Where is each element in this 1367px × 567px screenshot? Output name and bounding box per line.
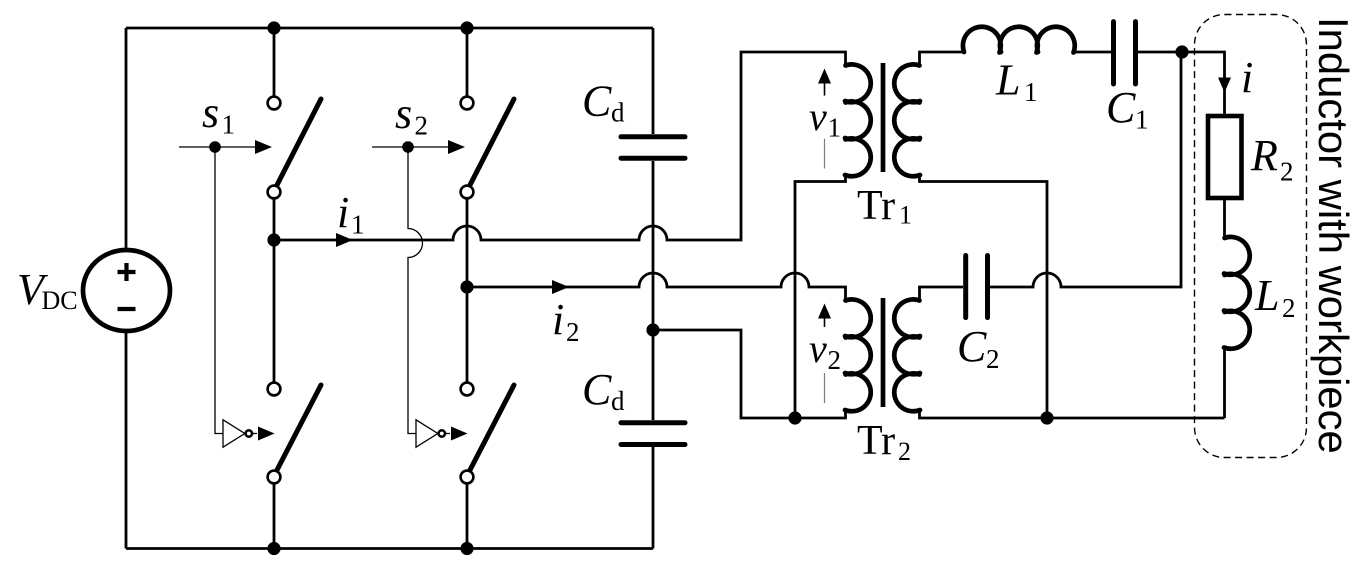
wire Tr1 secondary bottom bbox=[920, 175, 1048, 418]
label Tr1 bbox=[857, 183, 912, 230]
svg-text:1: 1 bbox=[1024, 77, 1038, 107]
node dot output bbox=[1175, 45, 1188, 58]
s2 control vertical line with hop over i1 wire bbox=[408, 147, 423, 434]
svg-text:1: 1 bbox=[828, 113, 842, 143]
wire Tr1 secondary top to L1 bbox=[920, 52, 965, 66]
label i1 bbox=[337, 188, 365, 240]
transformer Tr1 primary coil bbox=[845, 64, 871, 176]
svg-text:d: d bbox=[611, 98, 625, 128]
svg-text:i: i bbox=[337, 188, 349, 237]
v2 arrow bbox=[818, 304, 831, 328]
switch S1b bottom contact bbox=[268, 471, 281, 484]
svg-text:1: 1 bbox=[899, 201, 912, 230]
node dot secondary return bbox=[1040, 411, 1053, 424]
i2 arrowhead bbox=[552, 280, 569, 294]
node dot top rail leg2 bbox=[460, 21, 473, 34]
v1 arrow bbox=[818, 69, 831, 96]
transformer Tr1 secondary coil bbox=[894, 64, 920, 176]
wire L2 down to bottom return bbox=[1223, 348, 1226, 419]
wire C2 to output with hop over secondary return bbox=[990, 52, 1182, 287]
svg-text:C: C bbox=[957, 322, 987, 371]
node dot i2 tap bbox=[460, 280, 473, 293]
resistor R2 bbox=[1208, 116, 1242, 198]
transformer Tr2 core bbox=[881, 298, 886, 407]
label i2 bbox=[552, 295, 580, 347]
svg-text:i: i bbox=[1241, 53, 1253, 102]
inverter gate G2 bubble bbox=[439, 430, 445, 436]
s1 control node dot bbox=[209, 141, 221, 153]
wire leg1 lower bbox=[273, 483, 276, 548]
voltage source VDC bbox=[83, 250, 170, 331]
transformer Tr1 core bbox=[881, 63, 886, 172]
wire Tr2 secondary top to C2 bbox=[920, 287, 964, 301]
label C1 bbox=[1106, 83, 1149, 135]
switch S1 bottom contact bbox=[268, 186, 281, 199]
label Tr2 bbox=[857, 418, 911, 466]
switch S2b blade bbox=[470, 385, 514, 470]
wire bottom return to Tr2 secondary bbox=[920, 410, 1225, 418]
capacitor C1 bbox=[1114, 22, 1136, 84]
switch S2 top contact bbox=[461, 97, 474, 110]
inverter gate G2 output line bbox=[445, 433, 450, 435]
switch S1b blade bbox=[277, 385, 321, 470]
inverter gate G1 output line bbox=[252, 433, 257, 435]
switch S1b top contact bbox=[268, 383, 281, 396]
svg-text:C: C bbox=[1106, 83, 1136, 132]
svg-text:L: L bbox=[995, 56, 1020, 105]
inductor L1 bbox=[963, 27, 1075, 53]
label L2 bbox=[1254, 271, 1296, 323]
node dot bottom rail leg2 bbox=[460, 542, 473, 555]
wire i2 with hops over Cd rail and primary return bbox=[467, 273, 846, 301]
wire leg2 lower bbox=[466, 483, 469, 548]
svg-text:2: 2 bbox=[1280, 157, 1294, 187]
label Cd top bbox=[582, 77, 625, 128]
transformer Tr2 secondary coil bbox=[894, 299, 920, 411]
capacitor Cd bottom bbox=[621, 423, 685, 445]
v2 reference line bbox=[824, 373, 826, 403]
wire i1 with hops over leg2 and Cd rail bbox=[274, 52, 846, 240]
svg-text:2: 2 bbox=[898, 437, 911, 466]
node dot Cd midpoint bbox=[646, 323, 659, 336]
label L1 bbox=[995, 56, 1038, 108]
switch S2 blade bbox=[470, 99, 514, 185]
wire leg1 upper bbox=[273, 28, 276, 97]
svg-text:v: v bbox=[809, 326, 827, 371]
dashed load box bbox=[1195, 15, 1307, 458]
label R2 bbox=[1250, 131, 1294, 187]
wire leg2 upper bbox=[466, 28, 469, 97]
i1 arrowhead bbox=[336, 233, 353, 247]
node dot bottom rail leg1 bbox=[267, 542, 280, 555]
svg-text:i: i bbox=[552, 295, 564, 344]
label VDC bbox=[17, 265, 78, 315]
svg-text:2: 2 bbox=[986, 344, 1000, 374]
svg-text:2: 2 bbox=[415, 111, 429, 141]
svg-text:1: 1 bbox=[222, 110, 236, 140]
svg-text:1: 1 bbox=[1135, 105, 1149, 135]
wire bottom rail bbox=[126, 547, 653, 550]
wire left rail upper bbox=[125, 28, 128, 250]
s1 control line bbox=[179, 146, 258, 148]
wire midpoint link to primaries return bbox=[653, 330, 846, 418]
inverter gate G1 arrowhead bbox=[258, 427, 275, 441]
switch S1 blade bbox=[277, 99, 321, 185]
v1 reference line bbox=[824, 139, 826, 169]
svg-text:R: R bbox=[1250, 131, 1278, 180]
s2 control arrowhead bbox=[448, 140, 465, 154]
wire Cd rail upper bbox=[652, 28, 655, 134]
label s2 bbox=[395, 89, 428, 141]
transformer Tr2 primary coil bbox=[845, 299, 871, 411]
svg-text:2: 2 bbox=[1282, 293, 1296, 323]
wire leg1 middle bbox=[273, 198, 276, 382]
inductor L2 bbox=[1224, 237, 1250, 349]
wire C1 to load bbox=[1138, 52, 1225, 116]
label s1 bbox=[202, 88, 235, 140]
svg-text:L: L bbox=[1254, 271, 1279, 320]
node dot primary return bbox=[788, 411, 801, 424]
wire Tr1 primary bottom return bbox=[795, 175, 846, 418]
svg-text:s: s bbox=[395, 89, 412, 138]
s1 control arrowhead bbox=[255, 140, 272, 154]
capacitor C2 bbox=[966, 256, 988, 318]
svg-text:Inductor with workpiece: Inductor with workpiece bbox=[1310, 17, 1357, 454]
wire left rail lower bbox=[125, 331, 128, 549]
node dot i1 tap bbox=[267, 233, 280, 246]
switch S2b bottom contact bbox=[461, 471, 474, 484]
svg-text:2: 2 bbox=[828, 345, 842, 375]
inverter gate G1 triangle bbox=[223, 420, 245, 447]
svg-text:C: C bbox=[582, 77, 612, 126]
switch S2 bottom contact bbox=[461, 186, 474, 199]
inverter gate G2 triangle bbox=[416, 420, 438, 447]
node dot top rail leg1 bbox=[267, 21, 280, 34]
s1 control vertical line bbox=[215, 147, 223, 434]
label v2 bbox=[809, 326, 841, 375]
label C2 bbox=[957, 322, 1000, 374]
label v1 bbox=[809, 94, 841, 143]
label Cd bottom bbox=[582, 365, 625, 416]
switch S2b top contact bbox=[461, 383, 474, 396]
wire R2 to L2 bbox=[1223, 198, 1226, 238]
inverter gate G2 arrowhead bbox=[451, 427, 468, 441]
svg-text:s: s bbox=[202, 88, 219, 137]
switch S1 top contact bbox=[268, 97, 281, 110]
wire L1 to C1 bbox=[1072, 51, 1111, 54]
s2 control line bbox=[372, 146, 451, 148]
svg-text:DC: DC bbox=[42, 286, 78, 315]
svg-text:Tr: Tr bbox=[857, 418, 895, 464]
inverter gate G1 bubble bbox=[246, 430, 252, 436]
svg-text:1: 1 bbox=[351, 210, 365, 240]
wire Cd rail lower bbox=[652, 447, 655, 549]
capacitor Cd top bbox=[621, 137, 685, 158]
svg-text:Tr: Tr bbox=[857, 183, 895, 229]
svg-text:d: d bbox=[611, 386, 625, 416]
wire top rail bbox=[126, 27, 653, 30]
s2 control node dot bbox=[402, 141, 414, 153]
svg-text:v: v bbox=[809, 94, 827, 139]
svg-text:2: 2 bbox=[566, 317, 580, 347]
svg-text:C: C bbox=[582, 365, 612, 414]
load current i arrowhead bbox=[1218, 78, 1231, 93]
wire leg2 middle bbox=[466, 198, 469, 382]
wire Cd rail middle bbox=[652, 161, 655, 420]
